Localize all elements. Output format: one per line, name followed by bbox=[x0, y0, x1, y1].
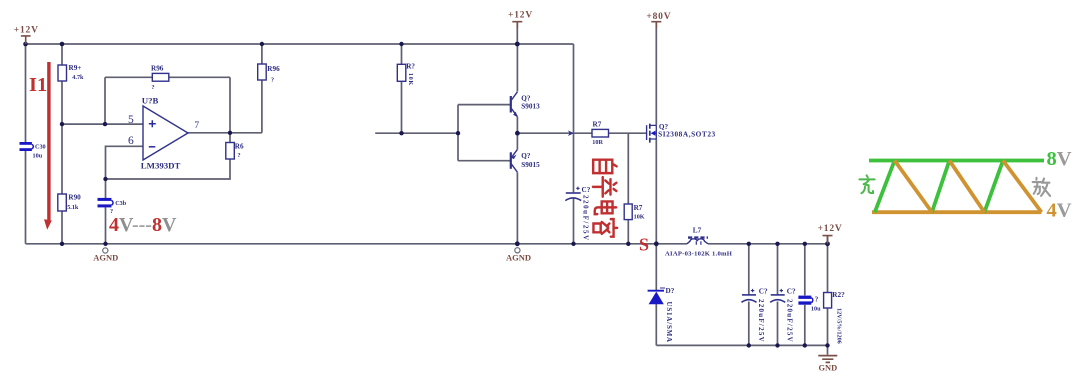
svg-text:+12V: +12V bbox=[818, 224, 843, 234]
svg-text:C?: C? bbox=[582, 186, 591, 194]
ground GND bbox=[818, 356, 837, 373]
power +12V right bbox=[818, 224, 843, 244]
wire Q9015 collector bbox=[516, 172, 518, 244]
capacitor C? output 1 bbox=[742, 288, 768, 343]
svg-text:AGND: AGND bbox=[93, 253, 118, 263]
svg-text:R96: R96 bbox=[151, 64, 164, 72]
waveform discharge ramps bbox=[895, 161, 1042, 213]
wire R2 column bbox=[827, 236, 829, 355]
svg-text:C?: C? bbox=[787, 288, 796, 296]
wire R7 10K column bbox=[627, 133, 629, 244]
resistor R96 feedback bbox=[151, 64, 169, 91]
svg-text:GND: GND bbox=[819, 364, 838, 373]
wire cap 10u column bbox=[804, 244, 806, 346]
annotation 容 (rong) rotated bbox=[593, 219, 617, 237]
wire R7 to gate bbox=[609, 132, 647, 134]
svg-text:C3b: C3b bbox=[115, 200, 127, 207]
svg-text:R6: R6 bbox=[235, 143, 244, 151]
annotation 电 (dian) rotated bbox=[595, 201, 616, 214]
waveform bottom line 4V bbox=[872, 210, 1042, 214]
wire C3b column bbox=[105, 179, 107, 244]
svg-text:220uF/25V: 220uF/25V bbox=[582, 195, 590, 242]
power +80V bbox=[646, 12, 671, 28]
wire cap C1 column bbox=[748, 244, 750, 346]
transistor Q? S9013 bbox=[511, 92, 540, 118]
wire cap C2 column bbox=[777, 244, 779, 346]
wire +80V drain bbox=[655, 22, 657, 126]
wire output bottom rail bbox=[656, 344, 827, 346]
svg-text:LM393DT: LM393DT bbox=[141, 161, 181, 171]
annotation 自 (zi) rotated bbox=[593, 160, 617, 237]
svg-text:S9013: S9013 bbox=[521, 103, 540, 111]
wire R? column bbox=[401, 44, 403, 133]
svg-text:+12V: +12V bbox=[14, 26, 39, 36]
svg-text:US1A/SMA: US1A/SMA bbox=[665, 302, 673, 343]
resistor R6 bbox=[226, 143, 244, 160]
wire pin6 net bbox=[106, 146, 144, 179]
svg-text:I1: I1 bbox=[29, 74, 47, 96]
capacitor C? bootstrap 220uF bbox=[565, 186, 590, 242]
diode D? US1A/SMA bbox=[648, 287, 675, 343]
svg-text:AGND: AGND bbox=[506, 252, 531, 262]
svg-text:5.1k: 5.1k bbox=[67, 204, 79, 211]
wire emitter to R7 bbox=[517, 132, 592, 134]
svg-text:8V: 8V bbox=[1047, 148, 1072, 170]
wire pin5 net bbox=[62, 123, 143, 125]
current arrow I1 bbox=[44, 62, 52, 230]
power +12V left bbox=[14, 26, 39, 45]
transistor Q? S9015 bbox=[511, 149, 540, 172]
op-amp U?B LM393DT bbox=[128, 95, 199, 170]
label 充 (charge) bbox=[859, 175, 874, 193]
svg-text:12V/5%/1206: 12V/5%/1206 bbox=[836, 308, 843, 344]
inductor L7 bbox=[665, 227, 733, 258]
wire feedback right vertical bbox=[229, 77, 231, 133]
capacitor C? output 2 bbox=[770, 288, 796, 343]
wire feedback top bbox=[105, 76, 230, 78]
wire op-amp output bbox=[188, 132, 262, 134]
svg-text:10u: 10u bbox=[33, 153, 43, 160]
wire R6 top bbox=[229, 133, 231, 143]
svg-text:C30: C30 bbox=[35, 143, 46, 150]
svg-text:10K: 10K bbox=[634, 213, 645, 220]
power +12V mid bbox=[508, 11, 533, 28]
resistor R? 10K bbox=[397, 63, 415, 86]
wire base net bbox=[375, 132, 458, 134]
wire top +12V rail bbox=[26, 43, 574, 45]
wire +12V mid stub bbox=[516, 22, 518, 45]
svg-text:R7: R7 bbox=[634, 204, 643, 212]
wire left vertical branch bbox=[25, 44, 27, 244]
wire Q9013 collector bbox=[516, 44, 518, 92]
AGND mid bbox=[506, 248, 531, 263]
svg-text:R96: R96 bbox=[267, 65, 280, 73]
svg-text:SI2308A,SOT23: SI2308A,SOT23 bbox=[658, 130, 716, 139]
svg-text:+12V: +12V bbox=[508, 11, 533, 21]
svg-text:Q?: Q? bbox=[521, 95, 531, 103]
svg-text:R9+: R9+ bbox=[69, 64, 82, 72]
svg-text:?: ? bbox=[815, 295, 819, 303]
label 放 (discharge) bbox=[1033, 178, 1050, 196]
wire-end arrow at boot node bbox=[568, 130, 574, 136]
wire R90 column bbox=[61, 124, 63, 244]
wire Q9013 base bbox=[458, 104, 510, 106]
resistor R96 pull-up bbox=[258, 64, 280, 84]
svg-text:10K: 10K bbox=[407, 73, 414, 86]
svg-text:220uF/25V: 220uF/25V bbox=[757, 299, 765, 343]
transistor Q? SI2308A MOSFET bbox=[647, 123, 716, 142]
resistor R9+ 4.7k bbox=[58, 64, 84, 81]
svg-text:4V---8V: 4V---8V bbox=[109, 214, 177, 236]
annotation 举 (ju) rotated bbox=[593, 177, 616, 197]
resistor R7 10R bbox=[592, 120, 609, 145]
svg-text:?: ? bbox=[238, 152, 241, 159]
svg-text:220uF/25V: 220uF/25V bbox=[786, 299, 794, 343]
svg-text:R?: R? bbox=[406, 63, 415, 71]
wire bottom feedback bbox=[106, 159, 231, 179]
resistor R2? bbox=[824, 291, 845, 344]
wire R96 pullup column bbox=[261, 44, 263, 133]
wire feedback left vertical bbox=[104, 77, 106, 124]
svg-text:S9015: S9015 bbox=[521, 161, 540, 169]
svg-text:D?: D? bbox=[666, 287, 675, 295]
svg-text:U?B: U?B bbox=[142, 95, 159, 105]
wire emitter junction vertical bbox=[516, 117, 518, 150]
waveform charge ramps bbox=[875, 161, 1003, 213]
resistor R7 10K gate-source bbox=[624, 204, 645, 220]
resistor R90 5.1k bbox=[58, 193, 81, 211]
svg-text:R2?: R2? bbox=[832, 291, 845, 299]
capacitor 10u output bbox=[798, 295, 821, 312]
wire R9+ column bbox=[61, 44, 63, 124]
svg-text:4.7k: 4.7k bbox=[72, 74, 84, 81]
svg-text:+80V: +80V bbox=[646, 12, 671, 22]
svg-text:?: ? bbox=[271, 77, 274, 84]
svg-text:L7: L7 bbox=[693, 227, 702, 235]
svg-text:C?: C? bbox=[759, 288, 768, 296]
svg-text:5: 5 bbox=[128, 114, 134, 126]
wire diode column bbox=[655, 244, 657, 346]
wire Q9015 base bbox=[458, 160, 510, 162]
capacitor C30 10u bbox=[20, 142, 46, 160]
svg-text:10u: 10u bbox=[811, 305, 821, 312]
svg-text:7: 7 bbox=[194, 121, 199, 131]
svg-text:Q?: Q? bbox=[521, 152, 531, 160]
svg-text:S: S bbox=[639, 235, 649, 255]
svg-text:6: 6 bbox=[128, 135, 134, 147]
svg-text:?: ? bbox=[152, 84, 155, 91]
svg-text:R90: R90 bbox=[68, 193, 81, 201]
waveform top line 8V bbox=[869, 159, 1044, 163]
svg-text:4V: 4V bbox=[1047, 199, 1072, 221]
wire base vertical bbox=[457, 105, 459, 161]
wire MOSFET source bbox=[655, 139, 657, 244]
svg-text:10R: 10R bbox=[592, 139, 603, 146]
svg-text:AIAP-03-102K 1.0mH: AIAP-03-102K 1.0mH bbox=[665, 251, 733, 258]
AGND left bbox=[93, 248, 118, 263]
wire +12V boot vertical bbox=[573, 44, 575, 244]
wire bottom AGND/S rail bbox=[26, 243, 828, 245]
svg-text:R7: R7 bbox=[593, 120, 602, 128]
capacitor C3b bbox=[98, 198, 127, 215]
